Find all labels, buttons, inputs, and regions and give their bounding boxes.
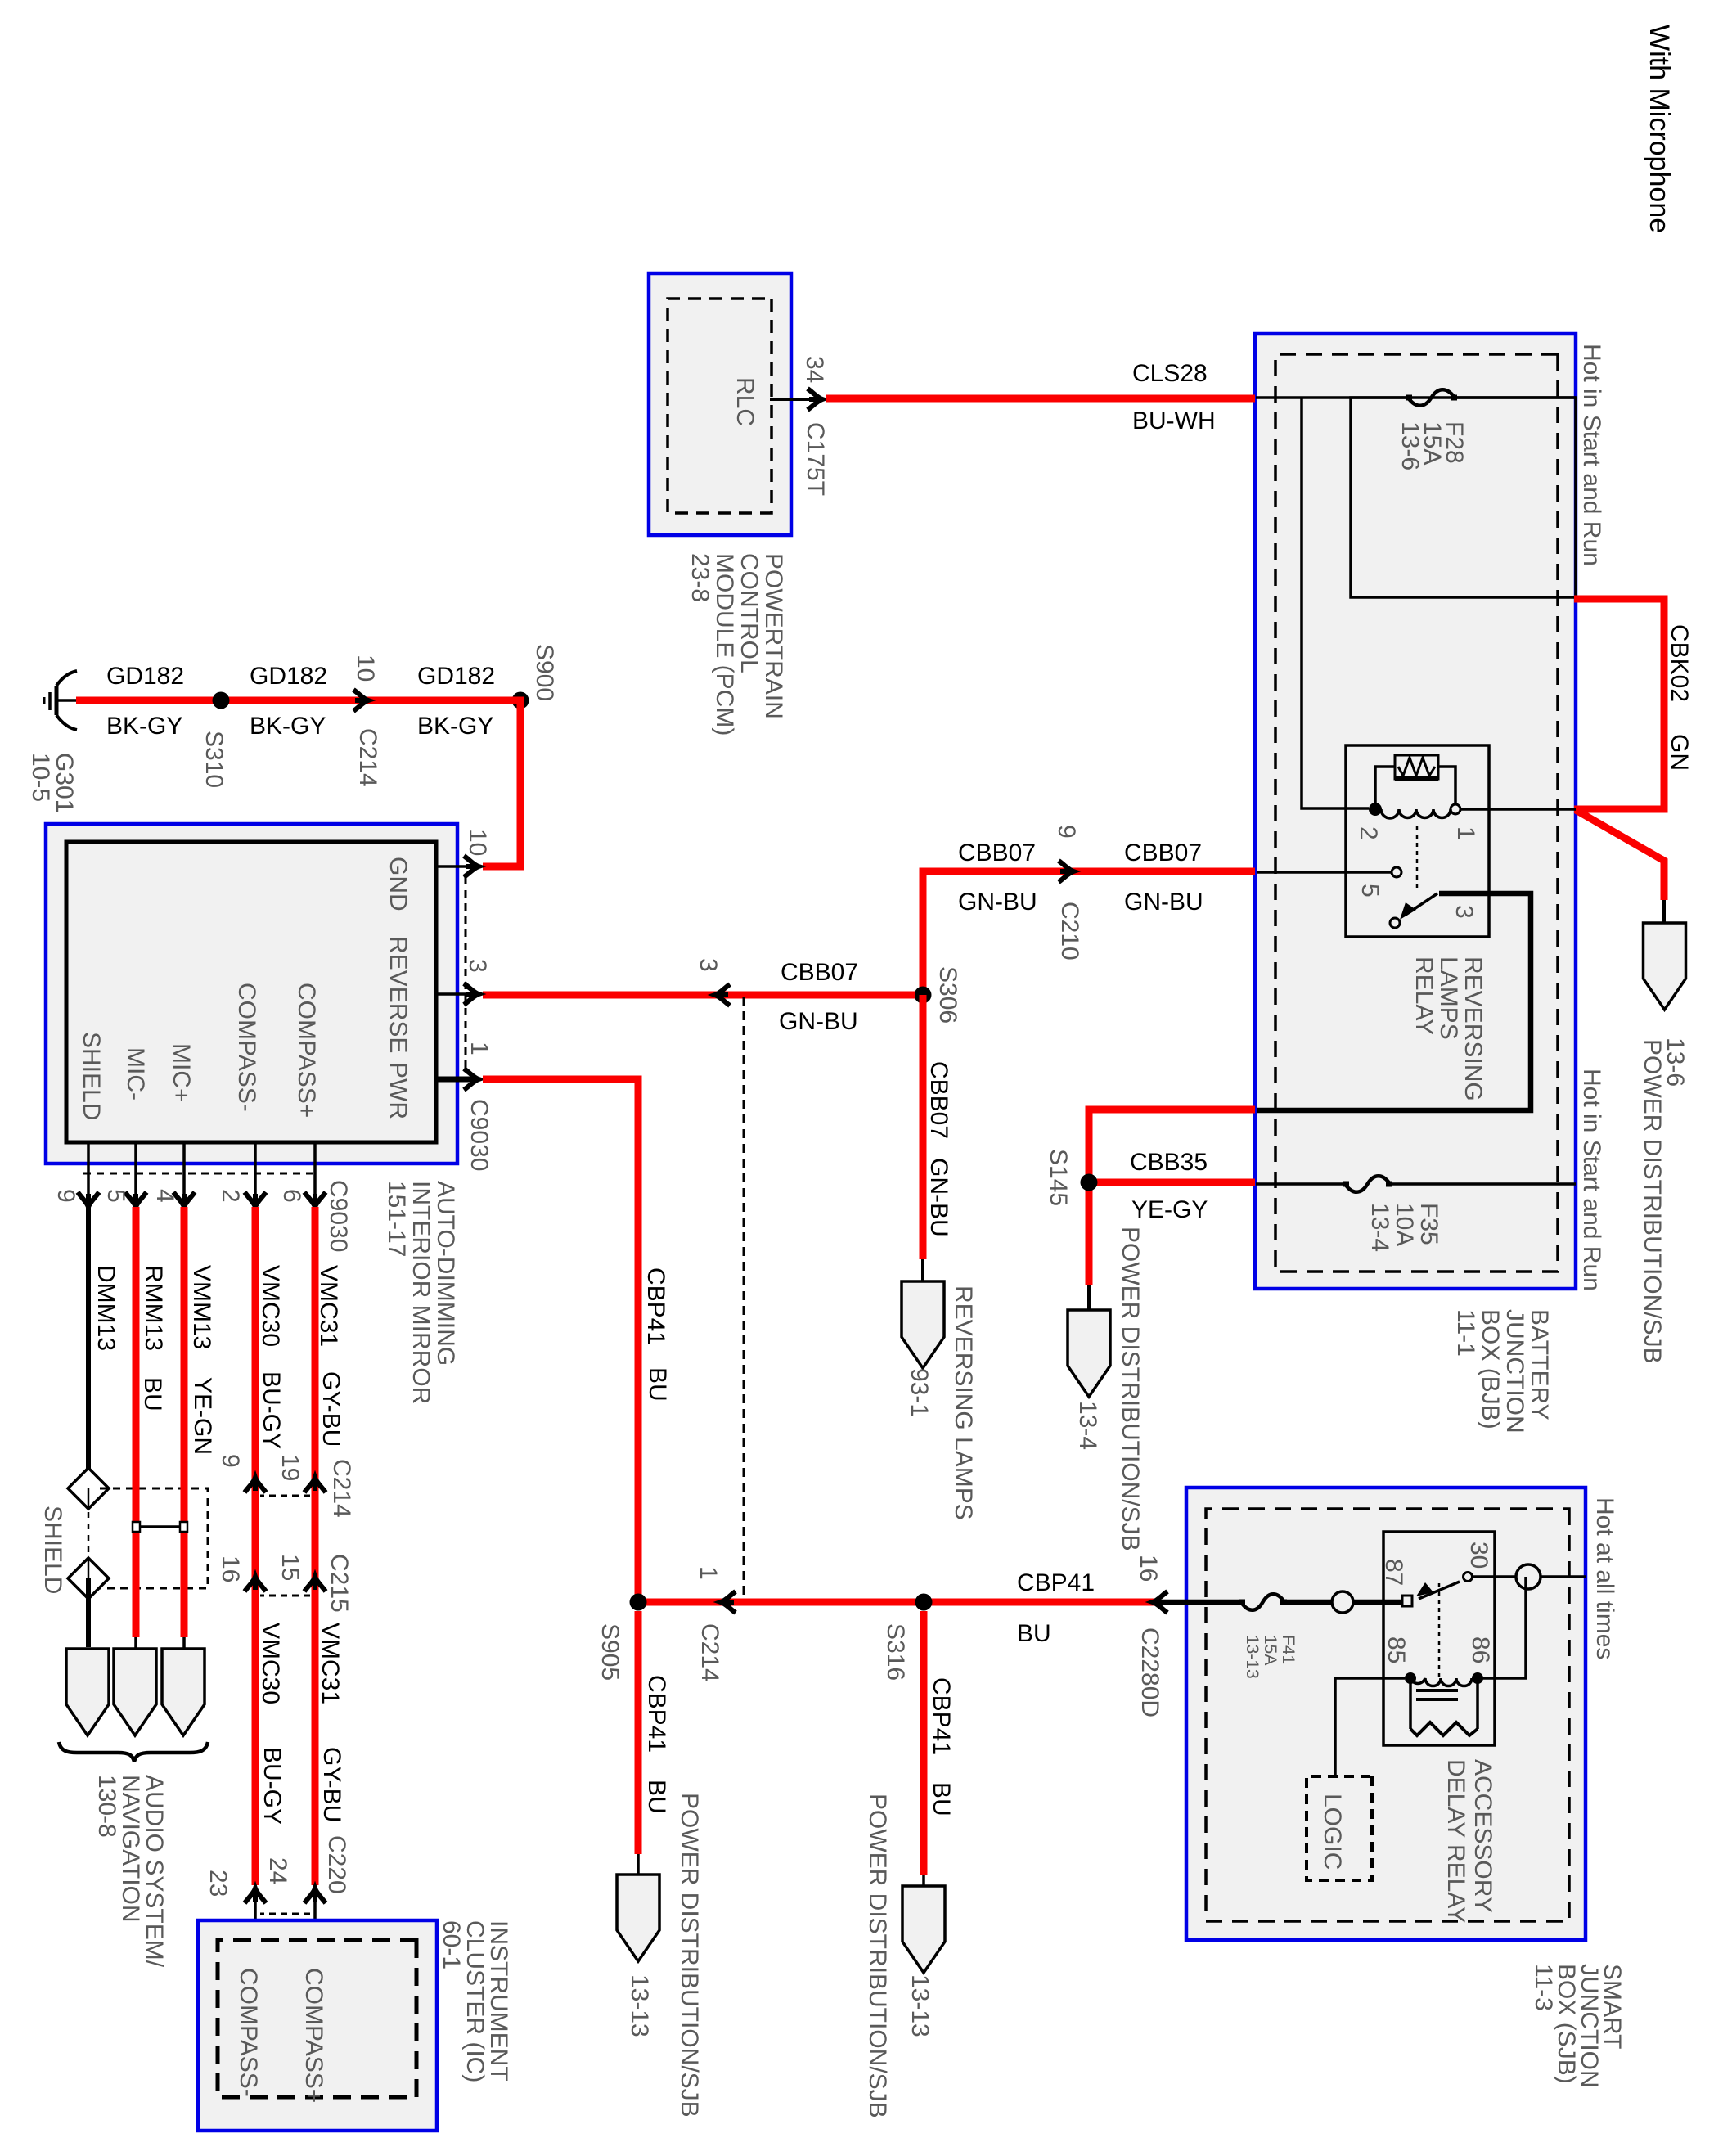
fuse F28 box [1351,398,1576,597]
svg-text:13-13: 13-13 [626,1974,653,2037]
relay suppression loop [1410,1678,1478,1729]
audio arrow MIC+ [162,1649,205,1735]
wire VMC31 GY-BU (COMPASS+) [312,1207,319,1885]
mic shield bond bar [138,1525,182,1528]
svg-text:COMPASS+: COMPASS+ [293,983,320,1118]
svg-text:C210: C210 [1056,902,1083,961]
svg-text:With Microphone: With Microphone [1644,25,1675,233]
svg-text:85: 85 [1383,1636,1410,1663]
svg-text:RELAY: RELAY [1410,956,1437,1035]
svg-text:CBB07: CBB07 [781,959,858,986]
wire CBK02 bridge over BJB top [1574,599,1664,809]
svg-text:VMM13: VMM13 [188,1265,215,1349]
svg-text:2: 2 [217,1189,244,1203]
SJB bus circle (F41) [1332,1591,1353,1613]
svg-text:11-1: 11-1 [1452,1309,1479,1357]
svg-text:COMPASS-: COMPASS- [233,983,260,1112]
svg-text:C214: C214 [354,728,381,787]
svg-text:F35: F35 [1415,1203,1442,1245]
splice S900 [512,692,529,709]
svg-text:GN: GN [1666,734,1693,771]
svg-text:YE-GN: YE-GN [189,1377,216,1455]
svg-text:S905: S905 [596,1623,623,1681]
svg-text:REVERSE: REVERSE [385,936,412,1053]
svg-text:VMC30: VMC30 [257,1265,284,1347]
svg-text:C9030: C9030 [466,1099,493,1171]
svg-text:COMPASS-: COMPASS- [235,1968,262,2097]
svg-text:24: 24 [264,1857,291,1884]
svg-text:COMPASS+: COMPASS+ [300,1968,327,2103]
IC pin 23 stub [254,1890,257,1940]
mirror inner box [66,842,436,1142]
suppression capacitor bars [1416,1689,1458,1692]
relay switch arm (SJB) [1419,1582,1460,1599]
mirror PWR pin arrow [464,1069,479,1090]
svg-text:MIC-: MIC- [122,1047,149,1101]
stub to 13-4 pentagon [1087,1285,1091,1310]
svg-text:VMC31: VMC31 [315,1265,342,1347]
mirror REVERSE pin stub [436,992,475,996]
svg-text:GY-BU: GY-BU [317,1371,344,1447]
svg-text:S306: S306 [934,966,961,1024]
SJB bus circle (pin 30) [1516,1564,1541,1589]
fuse F28 feed wire [1455,396,1576,399]
svg-text:AUTO-DIMMING: AUTO-DIMMING [432,1181,459,1366]
stub to reversing lamps pentagon [921,1259,924,1281]
reversing lamps relay box [1346,745,1489,937]
wire CLS28 BU-WH [826,395,1255,403]
svg-text:BK-GY: BK-GY [250,713,326,740]
relay pin 30 wire [1472,1575,1516,1578]
svg-text:C175T: C175T [802,422,829,496]
PCM pin 34 stub [770,398,820,401]
relay parallel resistor top stub [1438,767,1455,804]
mirror pin 4 arrow [173,1192,195,1207]
svg-text:C215: C215 [326,1554,353,1613]
svg-text:BK-GY: BK-GY [417,713,493,740]
svg-text:MIC+: MIC+ [168,1043,195,1103]
svg-text:60-1: 60-1 [438,1920,465,1969]
relay pin 1 contact [1451,804,1460,814]
relay pin 3 thick output wire [1257,893,1531,1110]
relay coil [1381,809,1451,818]
mirror pin 9 arrow [78,1192,99,1207]
connector C210 arrow pin 9 [1059,861,1073,882]
shield dashed enclosure [100,1488,208,1588]
splice S316 [915,1594,933,1611]
ground G301 symbol [58,699,76,702]
svg-text:3: 3 [464,959,491,973]
svg-text:10-5: 10-5 [27,753,54,802]
shield diamond 2 [68,1558,109,1599]
svg-text:BU: BU [928,1782,955,1816]
stub to 13-6 pentagon [1662,900,1666,923]
fuse F35 symbol [1345,1176,1390,1192]
svg-text:11-3: 11-3 [1530,1964,1557,2011]
svg-text:10A: 10A [1391,1203,1418,1246]
wire CBP41 S905 branch to power distribution [635,1611,642,1854]
svg-text:POWER DISTRIBUTION/SJB: POWER DISTRIBUTION/SJB [864,1794,891,2118]
svg-text:GN-BU: GN-BU [958,889,1037,916]
wire CBK02 diagonal branch to power distribution [1576,810,1664,900]
svg-text:Hot at all times: Hot at all times [1591,1497,1618,1659]
svg-text:4: 4 [151,1189,178,1203]
connector C220 arrow pin 23 [245,1888,266,1903]
accessory delay relay box [1383,1532,1495,1745]
svg-text:GY-BU: GY-BU [318,1747,345,1822]
svg-text:2: 2 [1355,826,1382,840]
svg-text:BU: BU [643,1780,670,1814]
svg-text:CBP41: CBP41 [643,1675,670,1753]
svg-text:CBB07: CBB07 [1124,839,1202,866]
svg-text:YE-GY: YE-GY [1131,1196,1208,1223]
svg-text:1: 1 [695,1566,722,1580]
IC pin 24 stub [313,1890,317,1940]
svg-text:CBK02: CBK02 [1666,624,1693,702]
wire from relay pin3 exit to S145 [1089,1110,1255,1285]
svg-text:DMM13: DMM13 [92,1265,119,1351]
audio arrow MIC- [114,1649,156,1735]
connector C214 arrow pin 10 (ground chain) [353,690,368,711]
power distribution arrow 13-13 (S905) [617,1875,659,1961]
svg-text:86: 86 [1467,1636,1494,1663]
mirror PWR pin stub [436,1077,475,1083]
splice S310 [213,692,230,709]
wire CBB07 branch to mirror reverse pin [483,992,915,999]
stub MIC+ pentagon [182,1637,186,1649]
svg-text:BU: BU [139,1377,166,1411]
svg-text:9: 9 [1053,825,1080,839]
svg-text:13-13: 13-13 [1243,1635,1262,1679]
svg-text:13-4: 13-4 [1366,1203,1393,1252]
svg-text:3: 3 [695,958,722,972]
connector C215 arrow pin 16 [245,1577,266,1591]
connector C9030 dashed (side pins) [80,1173,313,1175]
relay arm arrowhead (SJB) [1416,1582,1433,1596]
svg-text:BU: BU [1017,1620,1051,1647]
svg-text:GD182: GD182 [417,663,495,690]
mirror pin 6 stub [313,1142,317,1195]
shield diamond 1 [68,1468,109,1509]
svg-text:GD182: GD182 [106,663,184,690]
connector C214 arrow pin 9 (compass) [245,1478,266,1492]
relay resistor bottom stub [1375,767,1395,803]
wire DMM13 shield [86,1207,91,1470]
svg-text:C9030: C9030 [325,1180,352,1252]
relay coil pin1 wire to top bus [1460,808,1576,811]
relay pin 86 wire to hot bus [1482,1577,1526,1678]
wire CBP41 S316 branch to power distribution [920,1611,928,1875]
suppression resistor zigzag [1410,1722,1478,1735]
svg-text:S145: S145 [1045,1149,1072,1206]
svg-text:C220: C220 [323,1835,350,1894]
mirror pin 6 arrow [304,1192,326,1207]
connector C214 arrow pin 3 [715,984,730,1006]
svg-text:BU-WH: BU-WH [1132,407,1216,434]
PCM inner dashed boundary [668,299,772,513]
C214 dashed (compass) [260,1495,310,1497]
svg-text:CBP41: CBP41 [928,1677,955,1755]
svg-text:POWER DISTRIBUTION/SJB: POWER DISTRIBUTION/SJB [1639,1039,1666,1364]
IC inner dashed boundary [218,1940,416,2097]
connector C214 arrow pin 19 [304,1478,326,1492]
relay moving contact [1390,918,1400,928]
relay resistor box [1395,755,1438,779]
fuse F28 symbol [1408,389,1455,406]
power distribution arrow 13-4 [1068,1310,1110,1397]
splice S145 [1081,1174,1098,1191]
svg-text:87: 87 [1380,1559,1407,1586]
svg-text:9: 9 [217,1454,244,1468]
svg-text:CBP41: CBP41 [1017,1569,1095,1596]
svg-text:VMC30: VMC30 [257,1623,284,1704]
svg-text:RMM13: RMM13 [140,1265,167,1351]
mirror pin 4 stub [182,1142,186,1195]
svg-text:CBB07: CBB07 [958,839,1036,866]
svg-text:5: 5 [102,1189,129,1203]
svg-text:DELAY RELAY: DELAY RELAY [1442,1759,1469,1923]
BJB inner dashed boundary [1275,354,1558,1272]
svg-text:INTERIOR MIRROR: INTERIOR MIRROR [407,1181,434,1404]
svg-text:S310: S310 [200,731,227,788]
svg-text:BATTERY: BATTERY [1526,1309,1553,1420]
svg-text:1: 1 [466,1042,493,1055]
svg-text:3: 3 [1451,905,1478,919]
C220 dashed [260,1913,310,1915]
svg-text:RLC: RLC [731,377,758,426]
fuse F41 wire thick [1162,1600,1241,1605]
wire CBB35 from fuse F35 to S145 [1089,1179,1255,1186]
wire CBB07 to reversing lamps [920,995,927,1259]
svg-text:CBB35: CBB35 [1130,1149,1208,1176]
svg-text:BU-GY: BU-GY [258,1371,285,1449]
relay pin 30 contact [1464,1573,1473,1582]
svg-text:BU: BU [644,1367,671,1402]
stub 13-13 pentagon (S905) [637,1854,640,1875]
svg-text:13-6: 13-6 [1397,421,1424,470]
relay pin 85 wire to logic [1335,1678,1405,1776]
svg-text:JUNCTION: JUNCTION [1501,1309,1528,1434]
mirror pin 5 arrow [125,1192,146,1207]
splice S905 [630,1594,647,1611]
svg-text:GN-BU: GN-BU [779,1008,858,1035]
PCM pin 34 arrow [808,389,822,410]
SJB inner dashed boundary [1206,1509,1569,1921]
relay pin 87 contact [1402,1596,1412,1606]
stub MIC- pentagon [134,1637,137,1649]
relay coil (SJB) [1472,1672,1483,1684]
stub 13-13 pentagon (S316) [922,1875,925,1886]
relay resistor thick edge [1395,776,1438,781]
svg-text:6: 6 [278,1189,305,1203]
connector C2280D arrow pin 16 [1153,1591,1167,1613]
powertrain control module box [649,273,791,535]
svg-text:ACCESSORY: ACCESSORY [1469,1759,1496,1913]
svg-text:S900: S900 [531,644,558,701]
svg-text:GN-BU: GN-BU [925,1158,952,1237]
svg-text:151-17: 151-17 [383,1181,410,1257]
mirror pin 9 stub [87,1142,90,1195]
relay resistor zigzag [1398,758,1435,776]
svg-text:10: 10 [352,655,379,682]
brace to audio system [59,1742,208,1762]
svg-text:GND: GND [385,857,412,911]
svg-text:LAMPS: LAMPS [1435,956,1462,1040]
svg-text:LOGIC: LOGIC [1319,1794,1346,1870]
relay actuator dashed (SJB) [1438,1583,1441,1677]
svg-text:CLS28: CLS28 [1132,360,1208,387]
svg-text:SHIELD: SHIELD [39,1506,66,1594]
mirror REVERSE pin arrow [464,983,479,1005]
mirror pin 5 stub [134,1142,137,1195]
relay actuator dashed link [1416,826,1419,892]
svg-text:9: 9 [52,1189,79,1203]
audio arrow SHIELD [66,1649,109,1735]
wire VMM13 YE-GN (MIC+) [181,1207,188,1637]
mirror GND pin stub [436,865,475,868]
svg-text:C2280D: C2280D [1136,1627,1163,1717]
svg-text:GD182: GD182 [250,663,327,690]
wire VMC30 BU-GY (COMPASS-) [252,1207,259,1885]
wire CBB07 from BJB to S306 [923,871,1255,995]
svg-text:15: 15 [277,1554,304,1581]
svg-text:SHIELD: SHIELD [78,1032,105,1120]
svg-text:5: 5 [1356,884,1383,898]
power distribution arrow 13-6 [1644,923,1686,1010]
svg-text:13-13: 13-13 [906,1974,933,2037]
svg-text:15A: 15A [1261,1635,1280,1665]
smart junction box SJB outline [1186,1488,1586,1940]
svg-text:MODULE (PCM): MODULE (PCM) [711,553,738,736]
svg-text:S316: S316 [882,1623,909,1681]
svg-text:16: 16 [1135,1555,1162,1582]
svg-text:VMC31: VMC31 [317,1623,344,1704]
svg-text:CONTROL: CONTROL [736,553,763,673]
svg-text:13-4: 13-4 [1074,1401,1101,1450]
svg-text:BOX (BJB): BOX (BJB) [1477,1309,1504,1429]
mirror GND pin arrow [464,856,479,877]
svg-text:16: 16 [217,1555,244,1582]
svg-text:PWR: PWR [385,1062,412,1119]
svg-text:19: 19 [277,1454,304,1481]
svg-text:POWERTRAIN: POWERTRAIN [760,553,787,719]
splice S306 [915,987,932,1004]
wire RMM13 BU (MIC-) [133,1207,140,1637]
svg-text:REVERSING: REVERSING [1460,956,1487,1101]
instrument cluster box [198,1920,437,2131]
svg-text:C214: C214 [328,1459,355,1518]
svg-text:CBB07: CBB07 [925,1061,952,1139]
relay switch arm arrowhead [1400,902,1416,920]
wire GD182 chain [76,700,520,866]
power distribution arrow 13-13 (S316) [902,1886,945,1973]
svg-text:BU-GY: BU-GY [259,1747,286,1825]
svg-text:CBP41: CBP41 [642,1267,669,1345]
reversing lamps arrow 93-1 [902,1281,944,1368]
relay switch arm [1406,893,1437,915]
svg-text:Hot in Start and Run: Hot in Start and Run [1578,1069,1605,1291]
svg-text:C214: C214 [696,1623,723,1682]
svg-text:1: 1 [1452,826,1479,840]
wire CBP41 from mirror PWR to S905 and SJB [483,1079,1157,1602]
svg-text:93-1: 93-1 [906,1368,933,1417]
relay pin 5 contact [1392,867,1401,877]
svg-text:F41: F41 [1279,1635,1298,1664]
svg-text:23: 23 [205,1870,232,1897]
svg-text:34: 34 [801,356,828,383]
relay coil feed from fuse F28 [1302,398,1369,808]
battery junction box BJB outline [1255,334,1576,1289]
fuse F41 symbol [1241,1594,1284,1610]
shield wire to audio system [86,1578,91,1647]
svg-text:POWER DISTRIBUTION/SJB: POWER DISTRIBUTION/SJB [676,1793,703,2118]
svg-text:GN-BU: GN-BU [1124,889,1203,916]
relay pin 2 splice dot [1369,803,1382,816]
connector C214 dashed link pin3-pin1 [743,997,745,1597]
connector C220 arrow pin 24 [304,1888,326,1903]
svg-text:REVERSING LAMPS: REVERSING LAMPS [950,1285,977,1520]
svg-text:130-8: 130-8 [93,1775,120,1838]
connector C214 arrow pin 1 [721,1591,736,1613]
fuse F35 feed wire [1390,1182,1576,1186]
svg-text:10: 10 [464,829,491,856]
svg-text:BK-GY: BK-GY [106,713,182,740]
svg-text:23-8: 23-8 [686,553,713,602]
svg-text:Hot in Start and Run: Hot in Start and Run [1578,344,1605,566]
mirror pin 2 stub [254,1142,257,1195]
svg-text:30: 30 [1465,1542,1492,1569]
auto-dimming interior mirror box [46,824,457,1164]
connector C215 arrow pin 15 [304,1577,326,1591]
relay pin 5 wire to BJB edge [1257,871,1392,874]
mirror pin 2 arrow [245,1192,266,1207]
LOGIC dashed box [1307,1776,1372,1880]
svg-text:POWER DISTRIBUTION/SJB: POWER DISTRIBUTION/SJB [1117,1227,1144,1551]
C215 dashed [260,1595,310,1597]
shield dashed link [88,1512,90,1556]
connector C9030 dashed (top pins) [465,877,467,1071]
